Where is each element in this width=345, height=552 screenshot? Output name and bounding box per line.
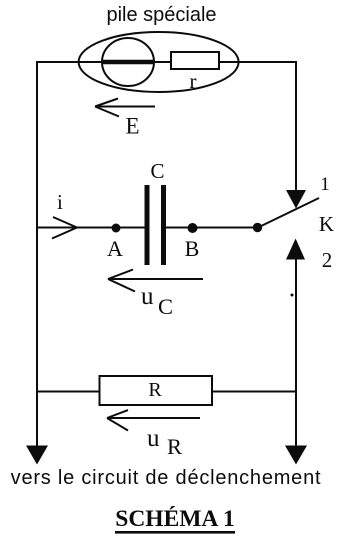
svg-text:E: E — [126, 114, 140, 139]
arrow u_C — [108, 270, 203, 292]
battery thick bar — [102, 60, 154, 65]
internal resistor r — [171, 52, 219, 69]
resistor R — [100, 376, 213, 405]
svg-text:pile spéciale: pile spéciale — [106, 4, 216, 26]
contact 2 arrowhead (up) — [286, 239, 305, 260]
svg-text:R: R — [167, 434, 182, 459]
wire: right rail upper — [295, 61, 297, 193]
title underline — [115, 531, 235, 534]
switch K blade — [258, 198, 319, 228]
svg-text:SCHÉMA 1: SCHÉMA 1 — [115, 506, 234, 532]
output arrow right (down) — [285, 446, 307, 465]
svg-text:R: R — [148, 379, 162, 401]
svg-text:1: 1 — [320, 174, 330, 195]
pile spéciale ellipse outline — [79, 32, 239, 92]
svg-text:i: i — [57, 190, 63, 214]
node B — [188, 223, 198, 233]
wire: top horizontal — [36, 61, 296, 63]
svg-text:vers le circuit de déclencheme: vers le circuit de déclenchement — [11, 467, 322, 489]
arrow u_R — [107, 410, 200, 431]
svg-text:2: 2 — [322, 248, 333, 272]
svg-text:C: C — [150, 159, 164, 183]
current arrow i — [52, 217, 77, 239]
svg-text:C: C — [158, 294, 173, 319]
node A — [112, 224, 121, 233]
svg-text:u: u — [141, 283, 154, 310]
svg-text:r: r — [190, 69, 197, 93]
wire: bottom horizontal left — [36, 391, 100, 393]
wire: right rail lower — [295, 258, 297, 448]
stray dot — [291, 294, 294, 297]
svg-text:A: A — [107, 236, 123, 261]
wire: left rail — [36, 61, 38, 448]
wire: bottom horizontal right — [212, 391, 296, 393]
capacitor C right plate — [161, 185, 166, 265]
svg-text:B: B — [185, 236, 200, 261]
arrow E — [95, 99, 155, 117]
battery source circle — [102, 38, 154, 86]
wire: middle horizontal left (rail to capacitor) — [36, 227, 145, 229]
wire: middle horizontal right (capacitor to switch) — [166, 227, 258, 229]
output arrow left (down) — [26, 446, 48, 465]
contact 1 arrowhead (down) — [286, 190, 306, 209]
capacitor C left plate — [145, 185, 150, 265]
svg-text:K: K — [319, 212, 334, 236]
svg-text:u: u — [147, 425, 160, 452]
switch K pivot node — [253, 223, 262, 232]
